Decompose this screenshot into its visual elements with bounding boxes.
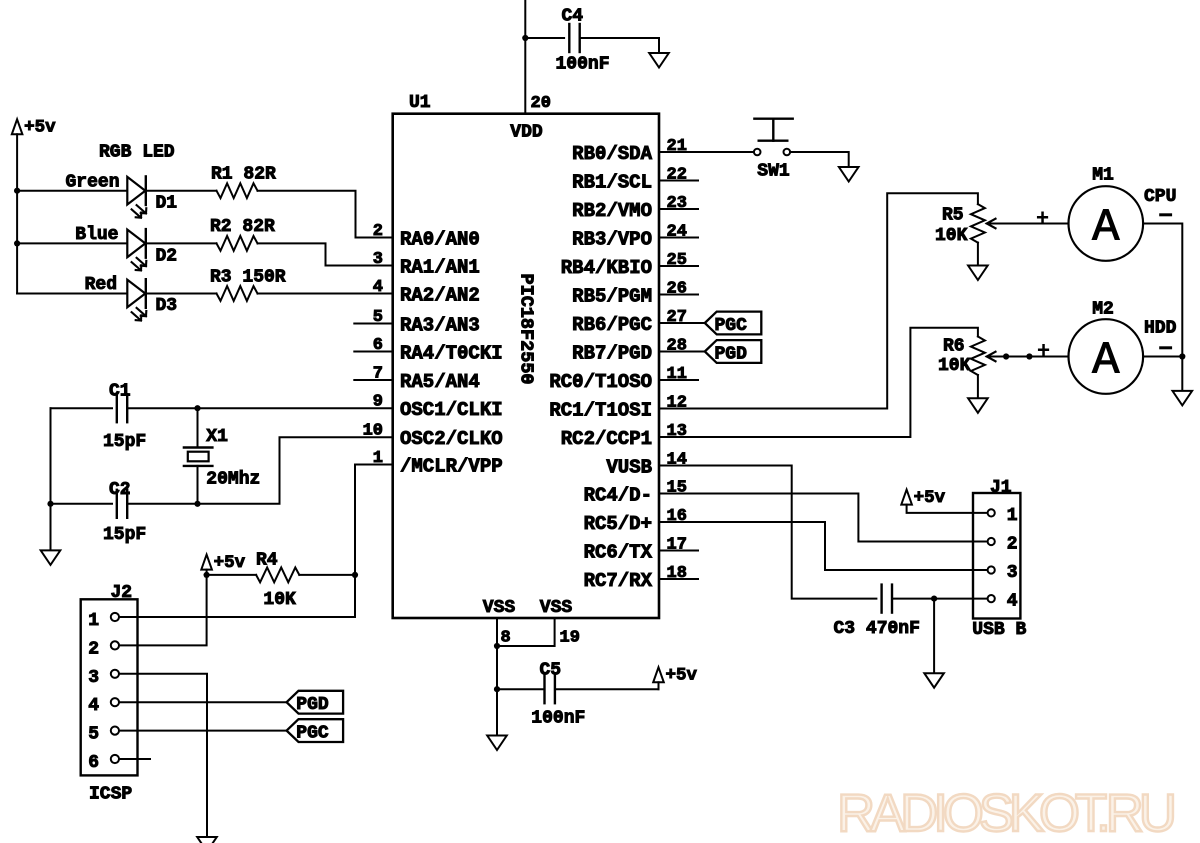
svg-text:PGC: PGC [296, 723, 329, 743]
wire red row [17, 293, 127, 295]
node blue junction [14, 240, 20, 246]
J2 pin 3 [111, 670, 119, 678]
connector J1 USB B body [973, 493, 1020, 619]
pin 27 RB6/PGC [659, 322, 698, 324]
node green junction [14, 188, 20, 194]
svg-text:D1: D1 [156, 193, 178, 213]
svg-text:C5: C5 [540, 661, 562, 681]
svg-text:2: 2 [88, 639, 99, 659]
J1 pin 4 [988, 595, 995, 602]
wire D1 to R1 [146, 190, 217, 192]
wire pin 21 to SW1 [698, 151, 754, 153]
svg-text:C1: C1 [109, 382, 131, 402]
node M2 wire dot 1 [1003, 353, 1009, 359]
wire pin 13 to R6 [698, 328, 978, 437]
resistor R1 82R [217, 183, 258, 198]
svg-text:RA2/AN2: RA2/AN2 [400, 285, 480, 307]
wire pin 15 to J1 pin2 [698, 494, 988, 542]
pin 22 RB1/SCL [659, 180, 698, 182]
svg-text:R5: R5 [942, 206, 964, 226]
svg-text:R4: R4 [256, 551, 278, 571]
svg-text:1: 1 [88, 611, 99, 631]
capacitor C4 [568, 24, 570, 52]
svg-text:CPU: CPU [1144, 187, 1176, 207]
node R4 right junction [352, 572, 358, 578]
wire R1 to pin 2 [258, 191, 393, 238]
svg-text:10K: 10K [263, 590, 296, 610]
ground below pin 8 [487, 736, 507, 751]
pin 17 RC6/TX [659, 550, 698, 552]
svg-text:+5v: +5v [666, 666, 698, 686]
capacitor C5 100nF [543, 675, 545, 703]
wire R2 to pin 3 [258, 243, 393, 265]
wire R4 to junction [299, 574, 355, 576]
wire C5 row [497, 688, 544, 690]
node +5v R4 junction [204, 572, 210, 578]
svg-text:3: 3 [1007, 563, 1018, 583]
svg-text:Green: Green [65, 172, 119, 192]
pin 18 RC7/RX [659, 578, 698, 580]
+5v supply (RGB LEDs) [12, 119, 23, 134]
wire +5v down to J2 pin2 [119, 575, 206, 646]
ground after C4 [649, 53, 669, 68]
svg-text:RC6/TX: RC6/TX [584, 542, 653, 564]
R6 wiper arrow [987, 352, 996, 362]
svg-text:5: 5 [373, 308, 383, 327]
svg-text:VDD: VDD [510, 123, 543, 143]
ground below C3 [924, 673, 944, 688]
crystal X1 20Mhz [197, 408, 199, 447]
wire R5 wiper to M1 [987, 223, 1069, 225]
svg-text:20Mhz: 20Mhz [206, 470, 260, 490]
svg-text:VSS: VSS [540, 598, 573, 618]
svg-text:A: A [1092, 201, 1120, 253]
svg-text:Red: Red [85, 275, 117, 295]
svg-text:A: A [1092, 334, 1120, 386]
capacitor C3 470nF [880, 585, 882, 613]
svg-text:RB3/VPO: RB3/VPO [572, 229, 652, 251]
svg-text:RB6/PGC: RB6/PGC [572, 314, 652, 336]
wire C1 to pin 9 [127, 407, 393, 409]
pin 23 RB2/VMO [659, 208, 698, 210]
svg-text:10K: 10K [935, 226, 968, 246]
J2 pin 5 [111, 727, 119, 735]
flag PGC (RB6) [705, 312, 762, 335]
wire green row [17, 190, 127, 192]
svg-text:5: 5 [88, 725, 99, 745]
node X1 top junction [194, 405, 200, 411]
op IC U1 PIC18F2550 body [393, 114, 659, 618]
wire C2 to pin 10 riser [127, 437, 393, 504]
svg-text:VUSB: VUSB [606, 457, 652, 479]
ground below R5 [968, 266, 988, 281]
svg-text:13: 13 [667, 422, 687, 441]
svg-text:RA0/AN0: RA0/AN0 [400, 229, 480, 251]
svg-text:11: 11 [667, 365, 687, 384]
svg-text:USB B: USB B [972, 620, 1026, 640]
svg-text:RA5/AN4: RA5/AN4 [400, 371, 480, 393]
+5v supply (R4/ICSP) [201, 555, 212, 570]
svg-text:6: 6 [88, 753, 99, 773]
wire C3 to J1 pin4 [892, 598, 987, 600]
wire pin 1 riser [355, 465, 393, 618]
label - (M2) [1161, 346, 1171, 349]
svg-text:RB5/PGM: RB5/PGM [572, 286, 652, 308]
wire J2 pin4 to PGD flag [119, 701, 286, 703]
svg-text:14: 14 [667, 451, 687, 470]
svg-text:Blue: Blue [75, 225, 118, 245]
svg-text:+5v: +5v [214, 553, 246, 573]
svg-text:18: 18 [667, 564, 687, 583]
wire pin 28 to PGD flag [698, 351, 705, 353]
svg-text:+5v: +5v [914, 488, 946, 508]
svg-text:C2: C2 [109, 480, 131, 500]
svg-text:RB7/PGD: RB7/PGD [572, 343, 652, 365]
svg-text:100nF: 100nF [531, 708, 585, 728]
svg-text:22: 22 [667, 166, 687, 185]
connector J2 ICSP body [81, 599, 138, 775]
svg-text:/MCLR/VPP: /MCLR/VPP [400, 456, 503, 478]
svg-text:R2 82R: R2 82R [210, 217, 275, 237]
wire M1 to ground chain [1143, 224, 1182, 357]
svg-text:4: 4 [1007, 592, 1018, 612]
wire +5v to R4 [206, 570, 208, 575]
svg-text:21: 21 [667, 137, 687, 156]
pin 21 RB0/SDA [659, 151, 698, 153]
node X1 bottom junction [194, 501, 200, 507]
pin 12 RC1/T1OSI [659, 408, 698, 410]
wire R6 wiper to M2 [987, 356, 1069, 358]
wire pin 14 VUSB to C3 [698, 466, 876, 599]
svg-text:R1 82R: R1 82R [211, 165, 276, 185]
J2 pin 1 [111, 613, 119, 621]
svg-text:100nF: 100nF [556, 54, 610, 74]
svg-text:19: 19 [560, 629, 580, 648]
wire +5v vertical [16, 134, 18, 293]
svg-text:RB4/KBIO: RB4/KBIO [561, 257, 652, 279]
node C3 ground junction [931, 596, 937, 602]
svg-text:23: 23 [667, 194, 687, 213]
pin 20 wire to top [524, 0, 526, 114]
wire J2 pin3 to ground [119, 674, 207, 837]
svg-text:PGC: PGC [715, 316, 748, 336]
svg-text:C4: C4 [562, 7, 584, 27]
svg-text:16: 16 [667, 507, 687, 526]
pin 15 RC4/D- [659, 493, 698, 495]
svg-text:HDD: HDD [1144, 319, 1177, 339]
capacitor C1 15pF [116, 394, 118, 422]
svg-text:M1: M1 [1092, 166, 1114, 186]
svg-text:D2: D2 [156, 246, 178, 266]
J2 pin 4 [111, 698, 119, 706]
wire C5 to +5v [555, 688, 658, 690]
pin 26 RB5/PGM [659, 294, 698, 296]
resistor R2 82R [217, 236, 258, 251]
pin 14 VUSB [659, 465, 698, 467]
wire M2 to ground chain [1143, 356, 1182, 358]
pin 25 RB4/KBIO [659, 265, 698, 267]
node M1/M2 ground junction [1179, 353, 1185, 359]
J2 pin 2 [111, 641, 119, 649]
svg-text:2: 2 [1007, 535, 1018, 555]
ground below J2 pin3 [197, 837, 217, 843]
J1 pin 1 [988, 509, 995, 516]
wire J2 pin1 row [119, 616, 355, 618]
potentiometer R5 10K [971, 204, 985, 243]
svg-text:RC4/D-: RC4/D- [584, 485, 652, 507]
wire D2 to R2 [146, 242, 217, 244]
svg-text:+: + [1037, 341, 1050, 364]
svg-text:15pF: 15pF [103, 525, 146, 545]
svg-text:PGD: PGD [296, 695, 329, 715]
wire D3 to R3 [146, 293, 217, 295]
ground below R6 [968, 398, 988, 413]
svg-text:4: 4 [88, 696, 99, 716]
ground below meters [1173, 391, 1193, 406]
pin 24 RB3/VPO [659, 237, 698, 239]
svg-text:26: 26 [667, 280, 687, 299]
J2 pin 6 [111, 755, 119, 763]
svg-text:20: 20 [531, 94, 551, 113]
wire pin 8 VSS down [496, 618, 498, 736]
svg-text:PIC18F2550: PIC18F2550 [516, 274, 537, 385]
wire blue row [17, 242, 127, 244]
pin 13 RC2/CCP1 [659, 436, 698, 438]
flag PGD (ICSP) [287, 691, 344, 714]
wire +5v to J1 pin1 [907, 505, 988, 513]
svg-text:RA3/AN3: RA3/AN3 [400, 315, 480, 337]
resistor R3 150R [217, 286, 258, 301]
svg-text:7: 7 [373, 365, 383, 384]
wire +5v stem (C5) [658, 682, 660, 689]
svg-text:U1: U1 [409, 93, 431, 113]
svg-text:RB1/SCL: RB1/SCL [572, 172, 652, 194]
wire J2 pin5 to PGC flag [119, 730, 286, 732]
J1 pin 3 [988, 566, 995, 573]
svg-text:1: 1 [1007, 506, 1018, 526]
svg-text:27: 27 [667, 308, 687, 327]
ground after SW1 [839, 167, 859, 182]
wire pin 16 to J1 pin3 [698, 522, 988, 570]
wire J2 pin6 stub [119, 758, 150, 760]
node M2 wire dot 2 [1026, 353, 1032, 359]
label - (M1) [1161, 213, 1171, 216]
+5v supply (C5) [653, 667, 664, 682]
svg-text:ICSP: ICSP [89, 785, 132, 805]
svg-text:X1: X1 [206, 427, 228, 447]
wire pin 9 / C1 row [51, 407, 113, 409]
node C5 junction [494, 686, 500, 692]
potentiometer R6 10K [971, 337, 985, 376]
capacitor C2 15pF [116, 490, 118, 518]
node VSS junction [494, 643, 500, 649]
LED D2 [127, 230, 145, 258]
svg-text:J2: J2 [111, 583, 133, 603]
pin 6 RA4/T0CKI [354, 351, 392, 353]
wire pin 19 VSS down [497, 618, 555, 646]
svg-text:+5v: +5v [24, 118, 56, 138]
wire SW1 to ground [790, 152, 849, 167]
svg-text:D3: D3 [156, 296, 178, 316]
svg-text:RC0/T1OSO: RC0/T1OSO [549, 371, 652, 393]
flag PGD (RB7) [705, 340, 762, 363]
+5v supply (USB) [901, 490, 912, 505]
svg-text:RB0/SDA: RB0/SDA [572, 143, 652, 165]
node C1/C2 left junction [47, 501, 53, 507]
ammeter M2 [1069, 319, 1144, 394]
svg-text:RA1/AN1: RA1/AN1 [400, 257, 480, 279]
wire C2 row [51, 503, 113, 505]
svg-text:15pF: 15pF [103, 432, 146, 452]
svg-text:RGB LED: RGB LED [99, 143, 175, 163]
wire C3 junction to ground [933, 599, 935, 674]
wire C4 to ground [580, 38, 659, 53]
svg-text:R6: R6 [943, 337, 965, 357]
node VDD junction [522, 35, 528, 41]
svg-text:R3 150R: R3 150R [210, 268, 286, 288]
ammeter M1 [1069, 186, 1144, 261]
LED D1 [127, 177, 145, 205]
pin 7 RA5/AN4 [354, 379, 392, 381]
J1 pin 2 [988, 538, 995, 545]
svg-text:10K: 10K [938, 356, 971, 376]
pin 11 RC0/T1OSO [659, 379, 698, 381]
svg-text:15: 15 [667, 479, 687, 498]
wire pin 27 to PGC flag [698, 322, 705, 324]
svg-text:RC1/T1OSI: RC1/T1OSI [549, 400, 652, 422]
wire pin 12 to R5 [698, 193, 978, 408]
svg-text:PGD: PGD [715, 344, 748, 364]
LED D3 [127, 280, 145, 308]
svg-text:RC2/CCP1: RC2/CCP1 [561, 428, 652, 450]
svg-text:J1: J1 [990, 478, 1012, 498]
svg-text:6: 6 [373, 336, 383, 355]
switch SW1 [754, 149, 761, 156]
flag PGC (ICSP) [287, 719, 344, 742]
R5 wiper arrow [987, 219, 996, 229]
svg-text:24: 24 [667, 223, 687, 242]
svg-text:OSC1/CLKI: OSC1/CLKI [400, 399, 503, 421]
svg-text:+: + [1036, 208, 1049, 231]
pin 16 RC5/D+ [659, 521, 698, 523]
svg-text:3: 3 [88, 668, 99, 688]
pin 28 RB7/PGD [659, 351, 698, 353]
svg-text:25: 25 [667, 251, 687, 270]
wire junction to ground [1181, 357, 1183, 391]
resistor R4 10K [256, 568, 299, 583]
svg-text:RADIOSKOT.RU: RADIOSKOT.RU [837, 784, 1177, 843]
pin 5 RA3/AN3 [354, 323, 392, 325]
svg-text:OSC2/CLKO: OSC2/CLKO [400, 428, 503, 450]
svg-text:17: 17 [667, 536, 687, 555]
svg-text:SW1: SW1 [757, 162, 790, 182]
wire R3 to pin 4 [258, 293, 393, 295]
svg-text:8: 8 [501, 629, 511, 648]
wire VDD to C4 [525, 37, 564, 39]
svg-text:RB2/VMO: RB2/VMO [572, 200, 652, 222]
wire left vertical C1-C2-gnd [50, 408, 52, 550]
svg-text:M2: M2 [1092, 300, 1114, 320]
svg-text:VSS: VSS [483, 598, 516, 618]
svg-text:RC5/D+: RC5/D+ [584, 513, 652, 535]
svg-text:RA4/T0CKI: RA4/T0CKI [400, 343, 503, 365]
svg-text:28: 28 [667, 337, 687, 356]
svg-text:12: 12 [667, 394, 687, 413]
svg-text:C3 470nF: C3 470nF [834, 619, 920, 639]
ground below C1/C2 [41, 550, 61, 565]
svg-text:RC7/RX: RC7/RX [584, 570, 653, 592]
